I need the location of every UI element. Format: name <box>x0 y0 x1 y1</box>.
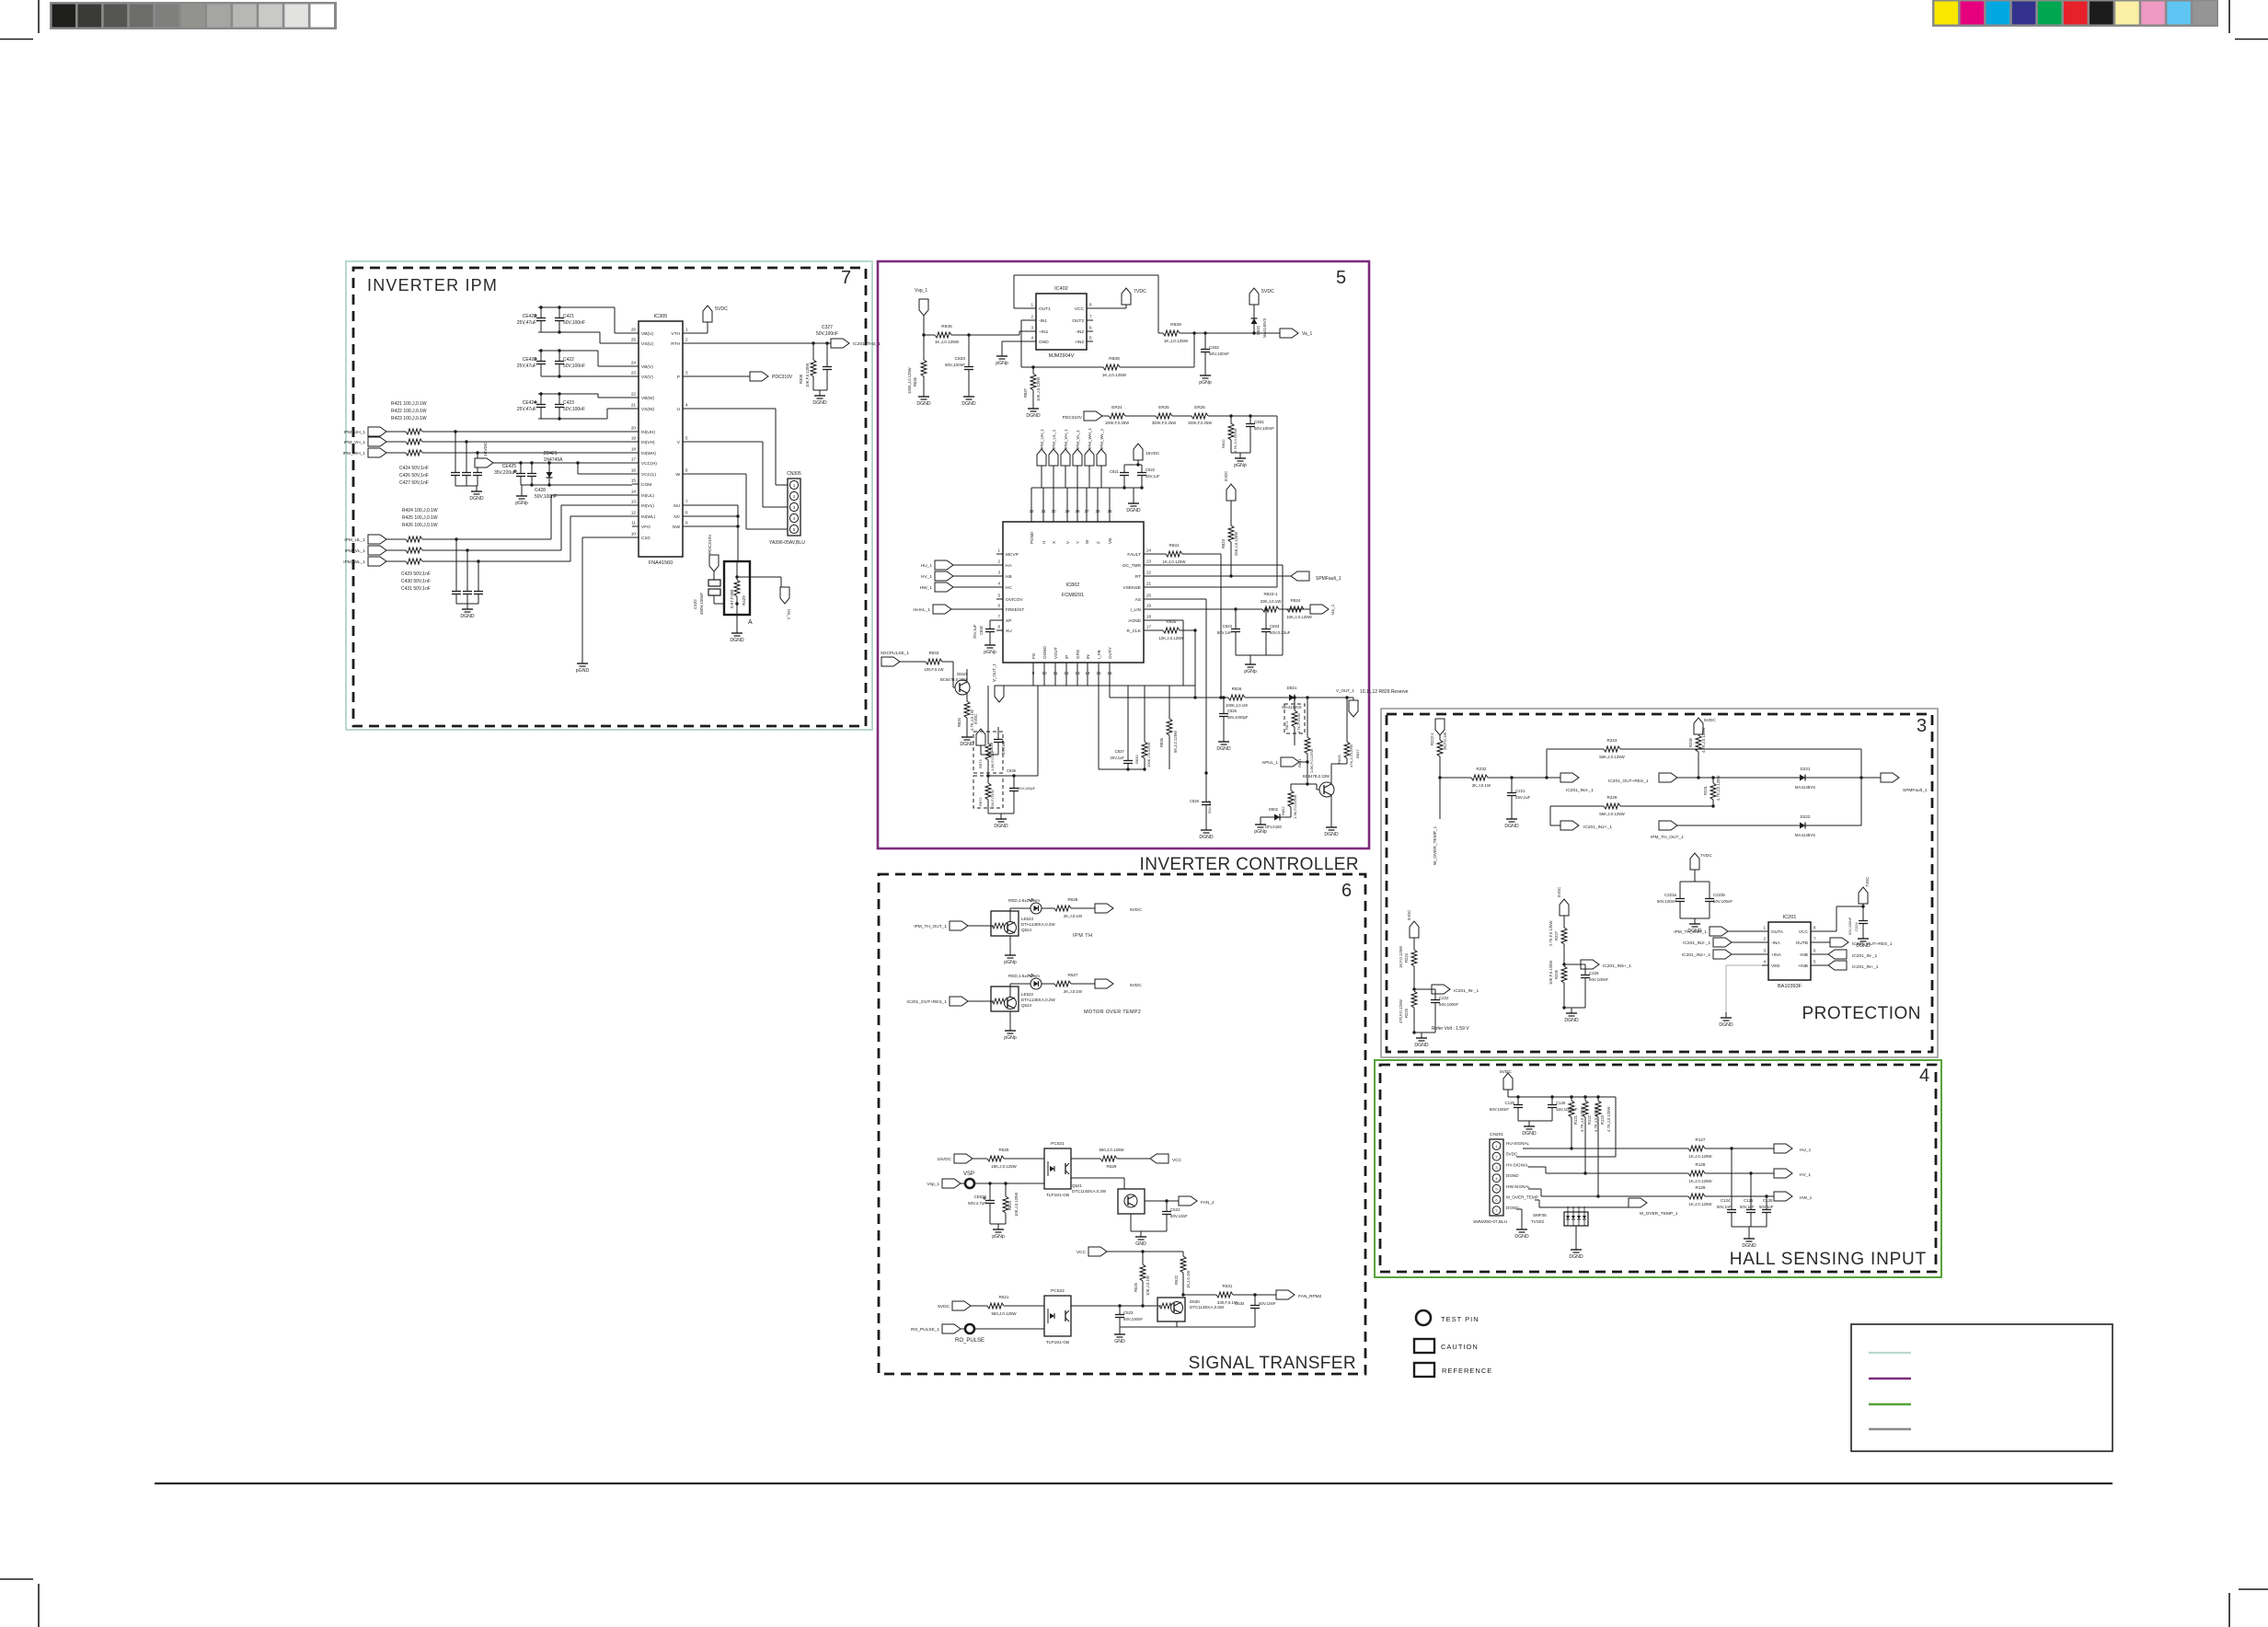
wire IPM_UL_1 to pin <box>550 495 552 539</box>
svg-text:pGNp: pGNp <box>1199 380 1212 386</box>
svg-text:D221: D221 <box>1801 767 1811 771</box>
svg-text:IN: IN <box>1086 654 1090 659</box>
svg-text:12: 12 <box>631 511 637 515</box>
svg-text:NV: NV <box>673 514 680 520</box>
net tag IC201_OUT+RES_1 at IC201 <box>1817 941 1830 943</box>
svg-text:pGNp: pGNp <box>1234 463 1247 468</box>
svg-text:33K,J,0.1W: 33K,J,0.1W <box>1261 599 1283 604</box>
resistor R528 <box>1054 906 1071 911</box>
resistor R834 <box>966 693 968 701</box>
svg-text:R422 100,J,0.1W: R422 100,J,0.1W <box>391 409 427 414</box>
svg-text:C432: C432 <box>693 599 697 609</box>
ground DGND under C124-C126 <box>1732 1226 1767 1228</box>
svg-text:24: 24 <box>631 361 637 365</box>
svg-text:R127: R127 <box>1696 1137 1706 1142</box>
svg-text:U: U <box>1042 541 1046 544</box>
svg-text:IC201_IN2+_1: IC201_IN2+_1 <box>1583 825 1612 830</box>
svg-text:9: 9 <box>685 521 688 525</box>
resistor R835 <box>1169 686 1170 719</box>
svg-text:DGND: DGND <box>1514 1234 1529 1240</box>
svg-text:15VDC: 15VDC <box>1146 451 1160 456</box>
svg-text:470,F,0.125W: 470,F,0.125W <box>1399 999 1403 1023</box>
svg-text:R421 100,J,0.1W: R421 100,J,0.1W <box>391 401 427 407</box>
svg-text:HV_1: HV_1 <box>921 574 932 580</box>
svg-text:C825: C825 <box>1227 709 1238 713</box>
svg-text:6: 6 <box>997 604 1000 608</box>
svg-text:IPM_UL_1: IPM_UL_1 <box>1052 429 1056 449</box>
svg-text:7VDC: 7VDC <box>1865 877 1870 887</box>
svg-text:100K,J,0.1W: 100K,J,0.1W <box>1226 703 1248 708</box>
svg-text:0.07,F,5W: 0.07,F,5W <box>730 589 734 608</box>
svg-text:DGND: DGND <box>1569 1254 1583 1260</box>
svg-text:pGNp: pGNp <box>984 650 996 655</box>
svg-text:CN201: CN201 <box>1490 1132 1503 1137</box>
svg-text:R224: R224 <box>1404 952 1409 963</box>
svg-text:50V,1nF: 50V,1nF <box>1759 1205 1774 1209</box>
svg-text:C422: C422 <box>563 357 574 363</box>
svg-text:2: 2 <box>685 338 688 342</box>
wire ER26 to VSENSE <box>1276 416 1278 587</box>
net tag IPM_TH_OUT_1 block3 <box>1659 821 1677 830</box>
svg-text:C126: C126 <box>1556 1101 1566 1105</box>
wire HU-SIGNAL row <box>1523 1148 1571 1149</box>
net tag mPUL_1 <box>1281 757 1299 767</box>
ground DGND under R225 <box>1421 1033 1422 1038</box>
svg-text:IN(UH): IN(UH) <box>641 430 655 435</box>
svg-text:50V,100nF: 50V,100nF <box>563 407 585 412</box>
net tag IPM_VL_1 block5 <box>1073 449 1082 466</box>
svg-text:R232: R232 <box>1477 767 1487 771</box>
svg-text:OC_TMR: OC_TMR <box>1122 563 1142 569</box>
svg-text:2: 2 <box>1030 315 1033 319</box>
svg-text:-INB: -INB <box>1799 952 1808 958</box>
svg-text:FREE/ST: FREE/ST <box>1006 607 1024 613</box>
wire Q530 emitter rail <box>1176 1321 1178 1327</box>
resistor R826 <box>1224 697 1228 698</box>
net tag IPM_WL_1 <box>368 557 386 566</box>
ground pGNp under Q523 <box>1009 1011 1011 1025</box>
svg-text:5VDC: 5VDC <box>1261 289 1274 294</box>
svg-text:pGNp: pGNp <box>1254 829 1267 835</box>
svg-text:MA4148VS: MA4148VS <box>1282 705 1301 710</box>
connector CN305 <box>788 479 800 536</box>
svg-text:100,F,0.1W: 100,F,0.1W <box>924 667 943 672</box>
net tag IPM_UH_1 <box>368 427 386 436</box>
svg-text:2.7K,F,0.125W: 2.7K,F,0.125W <box>1548 920 1553 946</box>
ground pGNp under CE522 <box>990 1223 1006 1225</box>
net tag IPM_VH_1 block5 <box>1061 449 1070 466</box>
svg-text:C827: C827 <box>1115 749 1125 754</box>
capacitor C822 <box>1140 486 1143 489</box>
resistor R42x on IPM_VH_1 <box>386 441 406 443</box>
svg-text:50V,100nF: 50V,100nF <box>1589 977 1608 982</box>
ground DGND under IC201 <box>1725 1012 1727 1018</box>
svg-text:AGND: AGND <box>1128 618 1141 624</box>
svg-text:IC402: IC402 <box>1054 286 1068 292</box>
svg-text:17: 17 <box>1146 625 1152 629</box>
svg-text:GPG: GPG <box>1076 649 1080 659</box>
svg-text:VB(V): VB(V) <box>641 364 653 370</box>
capacitor C521 <box>1166 1201 1168 1207</box>
svg-text:R852: R852 <box>1281 806 1285 815</box>
svg-text:VB(U): VB(U) <box>641 331 653 337</box>
svg-text:PC521: PC521 <box>1051 1141 1065 1147</box>
svg-text:Vsp_1: Vsp_1 <box>927 1182 939 1187</box>
transistor Q821 BC847B <box>1307 783 1317 785</box>
svg-text:DGND: DGND <box>1126 508 1141 513</box>
svg-text:6: 6 <box>1341 881 1352 901</box>
net tag W_OVER_TEMP_1 <box>1435 719 1445 735</box>
svg-text:R529: R529 <box>1107 1164 1117 1169</box>
capacitor C824 <box>1265 609 1267 625</box>
svg-text:XP: XP <box>1006 618 1011 624</box>
svg-text:5VDC: 5VDC <box>1130 983 1142 988</box>
svg-text:1K,J,0.125W: 1K,J,0.125W <box>1688 1179 1712 1183</box>
svg-text:mPUL_1: mPUL_1 <box>1261 760 1278 765</box>
net tag IC201_OUT+RES_1 block6 <box>950 997 968 1006</box>
svg-text:R521: R521 <box>999 1295 1009 1299</box>
svg-text:IC201_IN2+_1: IC201_IN2+_1 <box>1682 952 1710 958</box>
svg-text:mHAL_1: mHAL_1 <box>913 607 930 613</box>
svg-text:Q524: Q524 <box>1021 928 1032 932</box>
resistor R529 <box>1071 1158 1100 1160</box>
comparator IC201 BA10393F <box>1768 922 1811 980</box>
resistor R123 <box>1597 1097 1599 1101</box>
svg-text:HU-SIGNAL: HU-SIGNAL <box>1506 1141 1529 1146</box>
wire VCC(H) rail <box>493 462 632 464</box>
svg-text:VS(U): VS(U) <box>641 341 653 347</box>
svg-text:OV/COV: OV/COV <box>1006 597 1023 603</box>
svg-text:10,11,12 R829 Reserve: 10,11,12 R829 Reserve <box>1360 689 1409 695</box>
net tag IPM_TH_OUT_1 at IC201 <box>1710 927 1728 936</box>
svg-text:4: 4 <box>1919 1066 1929 1086</box>
color calibration strip <box>1932 0 2218 27</box>
svg-text:RT: RT <box>1135 574 1141 580</box>
svg-text:10K,J,0.125W: 10K,J,0.125W <box>1036 377 1041 401</box>
resistor R824 <box>1287 606 1304 612</box>
svg-text:16: 16 <box>631 468 637 473</box>
svg-text:R429: R429 <box>742 595 746 606</box>
svg-text:R531: R531 <box>1223 1284 1233 1288</box>
svg-text:IPM TH: IPM TH <box>1073 933 1093 939</box>
svg-text:Va_1: Va_1 <box>1302 331 1313 337</box>
svg-text:47K,J,0.125W: 47K,J,0.125W <box>1349 744 1353 767</box>
svg-text:pGNp: pGNp <box>996 361 1008 366</box>
wire RTH net <box>689 342 831 344</box>
svg-text:C226: C226 <box>1589 971 1599 975</box>
capacitor C534 <box>1254 1295 1256 1301</box>
legend test pin symbol <box>1416 1310 1431 1325</box>
svg-text:25K,J,0.125W: 25K,J,0.125W <box>1234 532 1238 556</box>
capacitor CE423 <box>538 350 598 352</box>
svg-text:DFLS160: DFLS160 <box>1265 825 1282 829</box>
svg-text:50V,100pF: 50V,100pF <box>1018 786 1036 790</box>
power tag 5VDC lower <box>952 1301 971 1310</box>
capacitor C825 <box>1223 698 1225 710</box>
svg-text:IPM_TH_OUT_1: IPM_TH_OUT_1 <box>1674 929 1707 935</box>
svg-text:8: 8 <box>1813 926 1816 930</box>
wire FAULT V_OUT row <box>1109 669 1111 698</box>
capacitor C821 <box>1122 486 1125 489</box>
bottom horizontal rule <box>155 1483 2113 1484</box>
svg-text:pGNp: pGNp <box>1004 1035 1017 1041</box>
capacitor C832 <box>1204 333 1206 345</box>
svg-text:R845: R845 <box>941 324 952 329</box>
power tag 5VDC on R527 <box>1095 979 1113 988</box>
capacitor C423 <box>558 394 560 400</box>
svg-text:C426 50V,1nF: C426 50V,1nF <box>399 473 429 479</box>
svg-text:R836: R836 <box>913 376 917 387</box>
svg-text:IPM_WH_1: IPM_WH_1 <box>1088 427 1092 449</box>
svg-text:HV-SIGNAL: HV-SIGNAL <box>1506 1162 1529 1167</box>
svg-text:25V,47uF: 25V,47uF <box>517 407 536 412</box>
net tag IC201_TH2_1 <box>831 339 849 348</box>
wire VS(U) rail <box>538 331 600 333</box>
svg-text:OUTY: OUTY <box>1108 647 1112 659</box>
svg-text:DTA113EKA,0.2W: DTA113EKA,0.2W <box>1021 998 1055 1002</box>
svg-text:2K,J,0.1W: 2K,J,0.1W <box>1064 989 1083 994</box>
net tag V_OUT_1 right <box>1353 698 1354 700</box>
ground DGND under C224 <box>1862 933 1864 939</box>
capacitor C429 <box>455 539 457 587</box>
resistor R42x on IPM_UL_1 <box>386 538 406 540</box>
resistor R525 <box>987 1156 1004 1161</box>
svg-text:R837: R837 <box>1023 387 1028 398</box>
svg-text:C423: C423 <box>563 400 574 406</box>
svg-text:R872: R872 <box>978 797 983 806</box>
crop mark top-left <box>38 0 40 33</box>
svg-text:R831: R831 <box>1169 543 1180 548</box>
svg-text:V_OUT_1: V_OUT_1 <box>1336 688 1355 693</box>
ground DGND under R226 <box>1571 1008 1572 1013</box>
resistor R852 <box>1306 782 1308 785</box>
svg-text:IPM_VL_1: IPM_VL_1 <box>1076 429 1080 449</box>
svg-text:HW_1: HW_1 <box>1800 1195 1813 1201</box>
svg-text:560,J,0.125W: 560,J,0.125W <box>991 1311 1017 1316</box>
svg-text:I_LIN: I_LIN <box>1131 607 1142 613</box>
svg-text:DGND: DGND <box>460 614 475 619</box>
svg-text:25V,1uF: 25V,1uF <box>1111 756 1125 760</box>
svg-text:50V,100nF: 50V,100nF <box>1713 899 1733 904</box>
capacitor C226 <box>1564 964 1585 965</box>
power tag 7VDC at IC201 <box>1817 930 1836 932</box>
wire M_OVER_TEMP row <box>1535 1199 1539 1201</box>
svg-text:R308: R308 <box>799 374 803 384</box>
svg-text:IC201_IN+_1: IC201_IN+_1 <box>1852 964 1879 970</box>
svg-text:15: 15 <box>631 479 637 483</box>
power tag 5VDC bottom left <box>976 729 985 745</box>
resistor R522 <box>1182 1252 1184 1256</box>
svg-text:COM: COM <box>641 482 651 488</box>
svg-text:19: 19 <box>631 436 637 441</box>
ground DGND under C821 C822 <box>1133 488 1134 498</box>
svg-text:R838: R838 <box>1109 356 1120 362</box>
op-amp IC305 FNA41560 inverter power module <box>639 321 683 557</box>
block 4 HALL SENSING INPUT green frame <box>1375 1060 1941 1277</box>
svg-text:18: 18 <box>1146 615 1152 619</box>
svg-text:BA10393F: BA10393F <box>1778 984 1802 989</box>
legend reference symbol <box>1414 1363 1434 1377</box>
resistor R42x on IPM_VL_1 <box>386 549 406 551</box>
svg-text:R823-1: R823-1 <box>1263 592 1278 596</box>
capacitor C830 <box>990 619 996 621</box>
svg-text:PGND: PGND <box>1030 531 1034 544</box>
svg-text:4.7K,J,0.125W: 4.7K,J,0.125W <box>1580 1106 1584 1132</box>
svg-text:Q523: Q523 <box>1021 1003 1032 1008</box>
svg-text:IN(UL): IN(UL) <box>641 493 655 499</box>
ground DGND under Q821 <box>1330 795 1332 822</box>
svg-text:300K,F,0.25W: 300K,F,0.25W <box>1152 421 1176 425</box>
resistor R122 <box>1584 1097 1586 1101</box>
svg-text:PDC310V: PDC310V <box>772 375 793 380</box>
svg-text:C823: C823 <box>1223 624 1233 629</box>
svg-text:GND: GND <box>1135 1241 1146 1247</box>
svg-text:50V,100nF: 50V,100nF <box>945 363 965 367</box>
wire HV-SIGNAL row <box>1528 1166 1546 1168</box>
svg-text:100K,F,0.25W: 100K,F,0.25W <box>1105 421 1129 425</box>
svg-text:5VDC: 5VDC <box>1224 471 1228 481</box>
svg-text:50V,0.22uF: 50V,0.22uF <box>1270 630 1291 635</box>
net tag M_OVER_TEMP_1 <box>1629 1198 1647 1207</box>
svg-text:DGND: DGND <box>1026 413 1041 419</box>
legend line pale green <box>1869 1352 1911 1354</box>
resistor R531 <box>1183 1294 1216 1296</box>
svg-text:C222: C222 <box>1439 996 1449 1000</box>
svg-text:17: 17 <box>631 457 637 462</box>
resistor R832 <box>1230 416 1232 423</box>
resistor R830 <box>1098 686 1099 769</box>
resistor R224 <box>1411 950 1417 966</box>
net tag HU_1 block4 <box>1774 1144 1792 1153</box>
svg-text:50V,100nF: 50V,100nF <box>1490 1107 1509 1112</box>
capacitor CE522 <box>989 1183 991 1196</box>
svg-text:50V,100nF: 50V,100nF <box>563 320 585 326</box>
svg-text:VB: VB <box>1108 538 1112 544</box>
svg-text:PROTECTION: PROTECTION <box>1802 1004 1921 1023</box>
svg-text:C223b: C223b <box>1713 893 1725 897</box>
power tag VCC lower <box>1088 1247 1107 1256</box>
capacitor CE425 <box>520 463 522 469</box>
svg-text:5: 5 <box>997 594 1000 598</box>
svg-text:1K,F,0.125W: 1K,F,0.125W <box>1399 946 1403 968</box>
power tag 5VDC on R528 <box>1095 904 1113 913</box>
svg-text:DGND: DGND <box>730 638 744 643</box>
test pin VSP <box>961 1183 964 1184</box>
svg-text:R824: R824 <box>1291 598 1301 603</box>
svg-text:1K,J,0.125W: 1K,J,0.125W <box>1164 339 1189 343</box>
svg-text:ER25: ER25 <box>1158 405 1169 410</box>
svg-text:RTH: RTH <box>671 341 680 347</box>
svg-text:4.7K,J,0.125W: 4.7K,J,0.125W <box>1606 1106 1611 1132</box>
svg-text:10: 10 <box>631 532 637 537</box>
connector CN201 SMW250-07 <box>1490 1139 1503 1216</box>
capacitor C222 <box>1414 988 1435 990</box>
resistor R227 <box>1561 928 1567 944</box>
svg-text:DGND: DGND <box>469 496 484 502</box>
resistor R429 shunt 0.07F5W <box>724 561 750 615</box>
capacitor C427 <box>477 453 478 468</box>
diode D821 MA4148VS <box>1285 697 1298 698</box>
svg-text:C428: C428 <box>535 488 546 493</box>
svg-text:23: 23 <box>1146 560 1152 564</box>
capacitor C831 <box>1249 416 1251 420</box>
svg-text:18: 18 <box>631 447 637 452</box>
svg-text:OUTB: OUTB <box>1796 940 1808 946</box>
net tag PDC310V at shunt <box>709 555 719 571</box>
net tag FAN_RPM2 <box>1276 1290 1295 1299</box>
led LE523 RED <box>1009 908 1011 921</box>
svg-text:D902: D902 <box>1269 807 1279 812</box>
resistor R129 <box>1688 1194 1705 1199</box>
svg-text:R832: R832 <box>1221 439 1226 448</box>
resistor R42x on IPM_WL_1 <box>386 560 406 562</box>
svg-text:C327: C327 <box>822 325 833 330</box>
svg-text:1: 1 <box>685 328 688 332</box>
svg-text:5VDC: 5VDC <box>938 1304 950 1310</box>
svg-text:C223a: C223a <box>1664 893 1676 897</box>
svg-text:5: 5 <box>685 436 688 441</box>
svg-text:R129: R129 <box>1696 1185 1706 1190</box>
svg-text:15VDC: 15VDC <box>938 1157 952 1162</box>
net tag IC201_IN4-_1 <box>1560 773 1579 782</box>
svg-text:ZD421: ZD421 <box>543 451 557 456</box>
svg-text:DGND: DGND <box>1199 835 1214 840</box>
svg-text:16V,1000pF: 16V,1000pF <box>1556 1107 1578 1112</box>
svg-text:IC201_IN-_1: IC201_IN-_1 <box>1454 988 1479 994</box>
wire VS(V) rail <box>541 375 632 377</box>
wire VCC(L) <box>577 463 579 474</box>
svg-text:VCC: VCC <box>1075 306 1085 312</box>
svg-text:MA4148VS: MA4148VS <box>1795 785 1815 790</box>
svg-text:R230: R230 <box>1688 737 1693 747</box>
crop mark bottom-right <box>2239 1588 2268 1590</box>
capacitor C126 <box>1551 1097 1553 1101</box>
svg-text:IC201_IN2-_1: IC201_IN2-_1 <box>1683 940 1710 946</box>
svg-text:FAN_2: FAN_2 <box>1201 1200 1215 1206</box>
net tag IC201_IN-_1 at IC201 <box>1817 953 1828 955</box>
svg-text:DGND: DGND <box>1414 1043 1429 1048</box>
svg-text:14: 14 <box>631 490 637 494</box>
ground DGND under C826 <box>1205 825 1207 830</box>
net tag IPM_UL_1 block5 <box>1049 449 1058 466</box>
block 3 PROTECTION outer gray frame <box>1381 709 1938 1057</box>
svg-text:7VDC: 7VDC <box>1700 853 1712 859</box>
svg-text:4.7K,J,0.125W: 4.7K,J,0.125W <box>1716 775 1721 801</box>
svg-text:4.7K,J,0.125W: 4.7K,J,0.125W <box>1233 429 1238 453</box>
svg-text:3: 3 <box>997 571 1000 575</box>
svg-text:DGND: DGND <box>1719 1022 1733 1028</box>
svg-text:REFERENCE: REFERENCE <box>1442 1367 1492 1375</box>
svg-text:R830: R830 <box>1134 755 1139 764</box>
net tag SPMFault_1 block3 <box>1881 773 1899 782</box>
svg-text:2: 2 <box>997 560 1000 564</box>
resistor R225 <box>1411 991 1417 1008</box>
svg-text:TEST PIN: TEST PIN <box>1441 1315 1479 1323</box>
svg-text:Z: Z <box>1096 541 1100 544</box>
svg-text:X: X <box>1052 541 1056 544</box>
svg-text:-INA: -INA <box>1771 940 1780 946</box>
svg-text:R826: R826 <box>1232 687 1242 691</box>
svg-text:3: 3 <box>1763 949 1766 953</box>
ground pGNp IC402 <box>1002 340 1030 342</box>
svg-text:25V,47uF: 25V,47uF <box>517 363 536 369</box>
svg-text:50V,100nF: 50V,100nF <box>816 331 838 337</box>
svg-text:DGND: DGND <box>1564 1018 1579 1023</box>
resistor R230 <box>1694 718 1703 734</box>
svg-text:R839: R839 <box>1170 322 1181 328</box>
svg-text:C521: C521 <box>1170 1207 1180 1212</box>
diode D902 DFLS160 <box>1284 816 1291 818</box>
